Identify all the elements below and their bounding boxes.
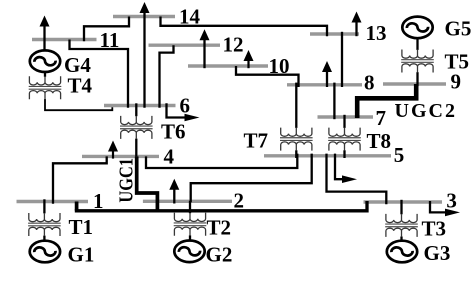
svg-text:T7: T7	[244, 129, 269, 153]
svg-text:G3: G3	[424, 241, 451, 265]
svg-text:UGC2: UGC2	[395, 100, 457, 122]
svg-text:G1: G1	[68, 243, 95, 267]
svg-text:14: 14	[179, 4, 201, 28]
svg-text:T5: T5	[445, 50, 470, 74]
svg-text:13: 13	[366, 21, 387, 45]
svg-text:T3: T3	[422, 217, 447, 241]
svg-text:T4: T4	[68, 73, 93, 97]
svg-text:3: 3	[446, 188, 457, 212]
svg-text:T1: T1	[69, 215, 94, 239]
svg-text:4: 4	[164, 144, 175, 168]
svg-text:2: 2	[234, 189, 245, 213]
svg-text:1: 1	[93, 189, 104, 213]
svg-text:T6: T6	[161, 120, 186, 144]
svg-text:12: 12	[223, 33, 244, 57]
svg-text:6: 6	[180, 93, 191, 117]
svg-text:T2: T2	[207, 216, 232, 240]
svg-text:11: 11	[100, 28, 120, 52]
svg-text:UGC1: UGC1	[115, 158, 137, 203]
svg-text:G2: G2	[206, 243, 233, 267]
svg-text:10: 10	[269, 54, 290, 78]
svg-text:T8: T8	[367, 129, 392, 153]
svg-text:8: 8	[364, 71, 375, 95]
svg-text:7: 7	[376, 106, 387, 130]
svg-text:G5: G5	[445, 16, 472, 40]
svg-text:5: 5	[394, 143, 405, 167]
